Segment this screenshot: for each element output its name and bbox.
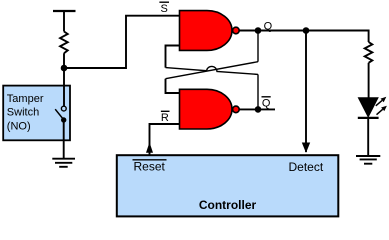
resistor R2 [365,42,373,63]
svg-text:Tamper: Tamper [7,93,44,105]
wire Q output [239,30,369,32]
wire Q feedback diagonal [166,62,259,79]
svg-text:(NO): (NO) [7,120,31,132]
svg-text:Detect: Detect [289,160,324,174]
LED light arrow 1 [376,97,387,106]
svg-text:Q: Q [264,20,273,32]
svg-text:Reset: Reset [134,160,166,174]
switch lever [55,109,63,119]
R-bar overline [161,110,170,112]
wire resistor R1 to node A and into switch [63,53,65,106]
LED light arrow 2 [377,106,387,115]
wire Q feedback: left rail to U2 upper input [166,79,180,93]
wire crossover with hop (Q-bar feedback diagonal) [166,66,259,74]
power rail bar [53,10,76,12]
controller box [117,155,338,216]
svg-text:Controller: Controller [199,198,257,212]
switch contact dot [61,117,66,122]
nand gate U2 [180,89,233,129]
Detect signal arrow [302,143,310,153]
wire node A to S-bar input [64,16,180,68]
Q-bar overline [262,96,271,98]
resistor R1 [60,32,68,54]
svg-text:Q: Q [262,98,271,110]
wire R-bar input [150,124,180,155]
LED D1 cathode bar [358,117,379,119]
wire Detect drop [305,31,307,153]
U2 output bubble [233,106,240,113]
S-bar overline [159,1,169,3]
wire Q-bar feedback: left rail to U1 lower input [166,46,180,68]
wire Q to resistor R2 [368,30,370,42]
wire resistor R2 to LED D1 [368,63,370,98]
ground (left) [52,159,75,167]
wire LED to ground [367,118,369,156]
nand gate U1 [180,11,232,51]
wire Q node down to crossover [257,31,259,62]
wire power bar to resistor R1 [63,11,65,32]
node Q-bar junction dot [255,106,262,113]
LED D1 triangle [358,98,378,117]
svg-text:S: S [161,3,168,15]
wire Q-bar output stub [239,108,275,110]
ground (right) [356,156,380,164]
Reset overline [133,159,167,161]
Reset signal arrow [146,142,153,153]
node A junction dot [61,65,68,72]
node Q junction dot [255,27,262,34]
svg-text:R: R [161,112,169,124]
node Detect junction dot [303,27,310,34]
wire switch to ground [63,120,65,159]
svg-text:Switch: Switch [7,107,39,119]
wire crossover down to Q-bar node [257,74,259,109]
switch contact circle [61,106,66,111]
U1 output bubble [233,27,240,34]
tamper switch box [3,86,70,141]
